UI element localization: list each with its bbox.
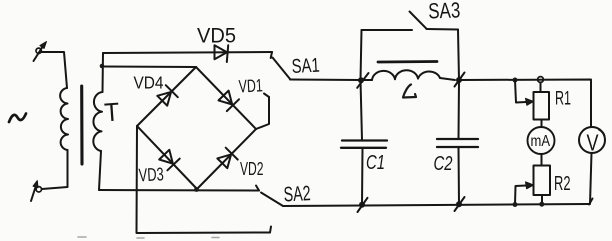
node: R2 wiper tap dot xyxy=(513,202,518,207)
wire: bridge left vertex down to SA2 lower contact xyxy=(137,126,271,233)
voltmeter V xyxy=(579,127,605,153)
transformer core xyxy=(80,86,83,164)
junction slash mark at C1 bottom xyxy=(358,198,368,212)
wire: top rail to VD5 and SA1 upper contact xyxy=(103,52,272,53)
resistor R2 (rheostat) xyxy=(541,154,543,166)
R2 wiper arrow xyxy=(515,186,526,205)
capacitor C1 plates xyxy=(342,139,387,141)
diode VD2 xyxy=(217,154,231,168)
node: R1 wiper tap dot xyxy=(513,78,518,83)
milliammeter mA xyxy=(528,127,555,154)
wire: voltmeter bottom lead xyxy=(590,153,592,204)
diode VD5 (half-wave rectifier on top rail) xyxy=(215,45,228,59)
svg-text:R2: R2 xyxy=(554,173,571,195)
svg-text:V: V xyxy=(587,130,600,156)
svg-text:VD1: VD1 xyxy=(238,75,263,96)
transformer T primary winding xyxy=(60,88,68,150)
svg-text:R1: R1 xyxy=(555,88,571,110)
transformer T secondary winding xyxy=(102,53,105,92)
wire: primary bottom to bottom terminal xyxy=(42,150,68,189)
svg-text:VD4: VD4 xyxy=(134,73,164,93)
diode VD3 xyxy=(159,150,173,164)
svg-text:VD5: VD5 xyxy=(197,24,236,48)
inductor L xyxy=(360,79,372,81)
wire: SA2 pole to output bottom rail xyxy=(283,204,589,206)
svg-text:SA1: SA1 xyxy=(291,55,320,78)
junction slash mark at filter-in top xyxy=(357,73,368,88)
terminal X2 (bottom-left input arrow) xyxy=(31,183,37,202)
wire: filter left vertical (SA3 to C1 to bottom) xyxy=(361,30,363,140)
switch SA3 xyxy=(362,29,413,31)
svg-text:VD2: VD2 xyxy=(240,159,264,179)
switch SA1 xyxy=(271,52,272,58)
svg-text:T: T xyxy=(103,97,120,128)
wire: bridge right vertex up to SA1 lower contact xyxy=(256,97,269,129)
svg-text:SA2: SA2 xyxy=(283,182,311,206)
wire: bottom rail (secondary bottom to SA2 contact) xyxy=(99,189,259,192)
R1 wiper arrow xyxy=(515,80,526,103)
bridge edge wire L-T xyxy=(137,67,196,126)
node: R2 bottom dot xyxy=(539,202,544,207)
wire: branch to bridge top vertex xyxy=(102,66,196,69)
wire: SA1 pole to filter input node xyxy=(290,79,360,82)
diode VD1 xyxy=(219,91,233,105)
wire: filter right vertical (SA3 to C2 to bottom) xyxy=(458,30,459,140)
AC source tilde symbol xyxy=(9,114,26,123)
wire: top terminal to primary top xyxy=(42,52,68,88)
label L (script) xyxy=(403,85,416,98)
node: secondary-top junction dot xyxy=(100,64,105,69)
capacitor C2 plates xyxy=(437,138,478,140)
terminal X1 (top-left input arrow) xyxy=(34,45,45,62)
faint scan marks at bottom xyxy=(78,237,219,238)
junction slash mark at filter-out top xyxy=(455,73,465,87)
svg-text:mA: mA xyxy=(531,133,551,150)
svg-text:C1: C1 xyxy=(366,152,385,174)
svg-text:VD3: VD3 xyxy=(138,163,164,185)
junction slash mark at C2 bottom xyxy=(455,197,465,211)
node: bridge bottom vertex junction xyxy=(194,187,199,192)
node: R1 top terminal circle xyxy=(538,77,544,83)
bridge edge wire B-R xyxy=(197,129,256,189)
bridge edge wire T-R xyxy=(196,67,256,129)
diode VD4 xyxy=(157,92,171,106)
switch SA2 xyxy=(256,186,259,191)
resistor R1 (rheostat) xyxy=(540,83,542,93)
bridge edge wire L-B xyxy=(137,126,197,189)
svg-text:SA3: SA3 xyxy=(428,0,461,23)
wire: filter output to load top rail xyxy=(459,80,591,128)
svg-text:C2: C2 xyxy=(434,153,453,175)
